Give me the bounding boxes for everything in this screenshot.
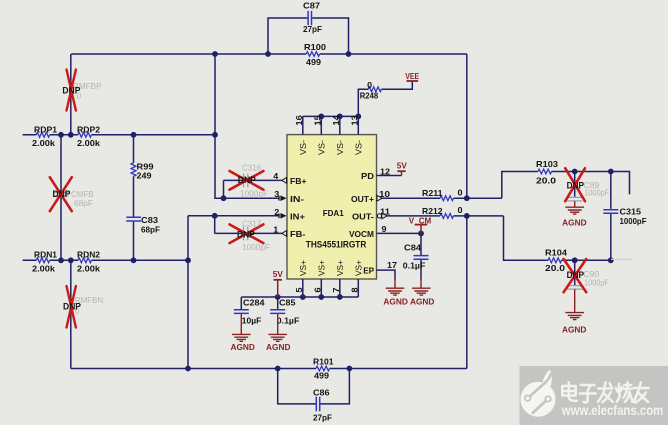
ground AGND under C89 — [574, 201, 576, 207]
svg-text:5: 5 — [295, 287, 304, 293]
capacitor C316 DNP X — [230, 171, 264, 190]
wire IN+ vertical down to bottom rail — [187, 216, 189, 369]
node RDN2-out / IN+ vertical — [185, 257, 191, 263]
wire VS- bus to R248 — [358, 82, 412, 117]
svg-text:R212: R212 — [422, 206, 443, 216]
capacitor CMFB DNP X — [50, 177, 72, 211]
node VS- bus pin14 — [337, 114, 343, 120]
capacitor C89 DNP X — [565, 168, 585, 201]
wire FB- row — [215, 232, 282, 234]
node RDP1-out / RMFBP — [68, 132, 74, 138]
node IN+ / C317 stub — [212, 213, 218, 219]
svg-text:VS-: VS- — [336, 140, 345, 155]
svg-text:RDN1: RDN1 — [34, 250, 57, 260]
resistor R212 — [440, 214, 454, 219]
node IN- / C316 stub — [221, 195, 227, 201]
node R211 out / top rail — [464, 195, 470, 201]
watermark box — [520, 366, 668, 425]
node C315 bottom — [608, 257, 614, 263]
node VS- bus pin15 — [318, 114, 324, 120]
svg-text:DNP: DNP — [53, 189, 71, 199]
capacitor C317 DNP gray plates — [244, 227, 248, 241]
power V_CM — [420, 225, 422, 234]
capacitor C85 — [277, 297, 279, 309]
svg-text:68pF: 68pF — [141, 225, 160, 235]
wire EP pin to ground — [377, 270, 396, 280]
capacitor C86 — [316, 397, 319, 411]
resistor RDN1 — [36, 258, 50, 263]
wire VS+ bus — [241, 296, 358, 298]
svg-text:10: 10 — [379, 189, 390, 199]
power 5V at VS+ bus — [277, 280, 279, 297]
wire VOCM pin row — [377, 232, 422, 234]
svg-text:6: 6 — [314, 287, 323, 293]
svg-text:AGND: AGND — [562, 325, 587, 335]
svg-text:0.1µF: 0.1µF — [403, 261, 426, 271]
svg-text:C84: C84 — [404, 243, 421, 253]
svg-text:R211: R211 — [422, 188, 443, 198]
svg-text:1000pF: 1000pF — [584, 187, 609, 197]
svg-text:499: 499 — [314, 371, 329, 381]
power VEE — [407, 80, 419, 82]
svg-text:0: 0 — [458, 205, 463, 215]
svg-text:V_CM: V_CM — [409, 216, 432, 226]
wire R103 out to C315 top and stub — [552, 172, 630, 195]
wire IN+ row — [188, 215, 280, 217]
svg-text:DNP: DNP — [237, 229, 255, 239]
resistor RMFBN DNP — [67, 286, 76, 328]
ground AGND under EP — [394, 280, 396, 288]
svg-text:16: 16 — [295, 114, 304, 125]
svg-text:C87: C87 — [303, 1, 320, 11]
wire R212 node down to R104 row — [504, 216, 549, 260]
node C87 left — [265, 51, 271, 57]
wire CMFB vertical branch — [60, 135, 62, 260]
svg-text:R100: R100 — [304, 42, 326, 52]
svg-text:C317: C317 — [242, 219, 261, 229]
capacitor C90 DNP X — [564, 259, 587, 292]
ground AGND under C84 — [420, 280, 422, 288]
wire C317 stub down — [214, 216, 216, 234]
svg-text:1: 1 — [273, 224, 278, 234]
resistor R104 — [548, 258, 562, 263]
svg-text:AGND: AGND — [266, 342, 291, 352]
svg-text:1000pF: 1000pF — [584, 278, 609, 288]
svg-text:2.00k: 2.00k — [32, 138, 55, 148]
svg-text:IN+: IN+ — [290, 211, 305, 221]
svg-text:14: 14 — [332, 114, 341, 125]
capacitor C89 DNP branch — [574, 172, 576, 197]
svg-text:PD: PD — [361, 171, 374, 181]
wire bottom feedback rail — [71, 216, 467, 369]
node RDN1-out / CMFB bottom — [58, 257, 64, 263]
node VOCM / C84 — [418, 231, 424, 237]
svg-text:VS+: VS+ — [299, 260, 308, 276]
resistor RDN2 — [78, 258, 92, 263]
wire OUT+ row to R211 — [382, 197, 502, 199]
node C87 right — [346, 51, 352, 57]
svg-text:R104: R104 — [545, 248, 567, 258]
svg-text:4: 4 — [273, 171, 278, 181]
svg-text:www.elecfans.com: www.elecfans.com — [561, 403, 663, 418]
svg-text:DNP: DNP — [63, 302, 81, 312]
resistor R101 — [316, 366, 330, 371]
svg-text:VS-: VS- — [318, 140, 327, 155]
node top-rail / RDP2-IN- vertical — [212, 51, 218, 57]
node C86 left — [275, 366, 281, 372]
wire RMFBN vertical branch — [70, 260, 72, 368]
svg-text:1000pF: 1000pF — [620, 216, 647, 226]
capacitor C316 DNP gray plates — [244, 174, 248, 188]
wire R104 out to C315 bottom — [562, 259, 611, 261]
svg-text:VOCM: VOCM — [349, 229, 374, 239]
op-amp FDA1 THS4551IRGTR body — [287, 135, 377, 279]
node C86 right — [347, 366, 353, 372]
svg-text:AGND: AGND — [410, 297, 435, 307]
svg-text:RDN2: RDN2 — [77, 250, 100, 260]
wire PD pin to 5V — [377, 175, 402, 177]
svg-text:FB+: FB+ — [290, 176, 307, 186]
svg-text:11: 11 — [380, 207, 390, 217]
pins 5 6 7 8 VS+ bottom stubs — [303, 279, 359, 297]
svg-text:AGND: AGND — [562, 217, 587, 227]
ground AGND under C284 — [240, 314, 242, 334]
resistor R248 — [368, 87, 381, 92]
wire faint stub right of C315 bottom — [611, 258, 632, 260]
svg-text:VS+: VS+ — [355, 260, 364, 276]
wire RDP input row — [23, 134, 215, 136]
node RDP2-out / R99 — [131, 132, 137, 138]
svg-text:1000pF: 1000pF — [240, 188, 268, 198]
svg-text:0: 0 — [458, 187, 463, 197]
node VS+ bus pin6 — [318, 294, 324, 300]
node R104 out / C90 — [572, 257, 578, 263]
resistor R211 — [440, 196, 454, 201]
svg-text:VEE: VEE — [405, 71, 419, 81]
node RDN2-out / C83 — [131, 257, 137, 263]
wire RMFBP vertical branch — [70, 54, 72, 135]
pins 16 15 14 13 VS- top stubs — [303, 116, 359, 134]
svg-text:FB-: FB- — [290, 229, 306, 239]
wire OUT- row to R212 — [387, 215, 503, 217]
svg-text:27pF: 27pF — [313, 413, 332, 423]
resistor R99 — [131, 163, 136, 177]
svg-text:AGND: AGND — [230, 342, 255, 352]
svg-text:8: 8 — [351, 287, 360, 293]
node VS+ bus pin5 — [300, 294, 306, 300]
svg-text:2.00k: 2.00k — [32, 264, 55, 274]
svg-text:499: 499 — [306, 57, 321, 67]
resistor RDP2 — [78, 132, 92, 137]
ground AGND under C90 — [574, 289, 576, 312]
pin 4 FB+ glyph — [282, 178, 287, 184]
pin 2 IN+ glyph — [280, 213, 286, 219]
svg-text:2.00k: 2.00k — [77, 264, 100, 274]
wire C86 loop — [278, 369, 350, 404]
wire RDN input row — [23, 259, 188, 261]
svg-text:2: 2 — [274, 207, 279, 217]
svg-text:249: 249 — [137, 171, 152, 181]
wire R211 node up to R103 row — [502, 172, 538, 199]
svg-text:5V: 5V — [273, 269, 283, 279]
svg-text:C284: C284 — [243, 298, 265, 308]
svg-text:20.0: 20.0 — [536, 175, 556, 185]
node VS- bus pin13 — [355, 114, 361, 120]
ground AGND under C85 — [277, 314, 279, 334]
svg-text:RDP1: RDP1 — [34, 124, 57, 134]
svg-text:0.1µF: 0.1µF — [277, 316, 300, 326]
watermark logo drop — [521, 382, 556, 417]
svg-text:VS+: VS+ — [318, 260, 327, 276]
node VS+ bus pin7 — [337, 294, 343, 300]
node R103 out / C89 — [572, 169, 578, 175]
pin 1 FB- glyph — [282, 231, 287, 237]
svg-text:AGND: AGND — [383, 297, 408, 307]
svg-text:68pF: 68pF — [74, 198, 93, 208]
node VS+ bus 5V/C85 — [275, 294, 281, 300]
svg-text:VS+: VS+ — [336, 260, 345, 276]
resistor RDP1 — [36, 132, 50, 137]
capacitor C284 — [240, 297, 242, 309]
pin 11 OUT- glyph — [377, 214, 381, 218]
svg-text:DNP: DNP — [62, 85, 80, 95]
watermark logo circuit cutouts — [529, 381, 547, 397]
svg-text:C85: C85 — [279, 298, 296, 308]
wire top feedback rail — [71, 53, 467, 55]
svg-text:DNP: DNP — [567, 270, 585, 280]
capacitor C315 — [610, 172, 612, 261]
wire VS- bus — [303, 115, 359, 117]
svg-text:IN-: IN- — [290, 194, 304, 204]
node R212 out / bottom rail — [464, 213, 470, 219]
svg-text:C315: C315 — [620, 206, 642, 216]
resistor R103 — [538, 169, 552, 174]
node RDP1-out / CMFB — [58, 132, 64, 138]
svg-text:2.00k: 2.00k — [77, 138, 100, 148]
svg-text:15: 15 — [313, 114, 322, 125]
node C315 top — [608, 169, 614, 175]
svg-text:7: 7 — [332, 287, 341, 293]
svg-text:17: 17 — [387, 260, 397, 270]
wire C87 loop — [268, 18, 349, 54]
resistor R100 — [306, 52, 320, 57]
wire right vertical from top rail to R211 node — [466, 54, 468, 198]
svg-text:THS4551IRGTR: THS4551IRGTR — [306, 239, 367, 249]
svg-text:3: 3 — [274, 189, 279, 199]
node RDP2-out / feedback — [212, 132, 218, 138]
pin 3 IN- glyph — [280, 195, 286, 201]
svg-text:20.0: 20.0 — [545, 263, 565, 273]
svg-text:1000pF: 1000pF — [242, 242, 270, 252]
svg-text:DNP: DNP — [567, 180, 585, 190]
svg-text:VS-: VS- — [299, 140, 308, 155]
svg-text:RDP2: RDP2 — [77, 124, 100, 134]
watermark chinese glyphs — [562, 382, 649, 402]
svg-text:0: 0 — [367, 80, 372, 90]
capacitor C84 — [420, 233, 422, 279]
wire R99/C83 branch — [133, 135, 135, 260]
svg-text:C86: C86 — [313, 388, 330, 398]
svg-text:VS-: VS- — [355, 140, 364, 155]
capacitor C83 — [126, 217, 141, 221]
svg-text:10µF: 10µF — [242, 316, 261, 326]
svg-text:C316: C316 — [242, 162, 261, 172]
node bottom rail / IN+ vertical — [185, 366, 191, 372]
svg-text:27pF: 27pF — [303, 24, 322, 34]
capacitor C317 DNP X — [230, 224, 264, 243]
capacitor C90 DNP branch — [574, 260, 576, 285]
wire FB+ row — [224, 179, 282, 181]
svg-text:R101: R101 — [313, 357, 334, 367]
wire vertical top-rail to IN- row — [215, 54, 280, 198]
svg-text:OUT-: OUT- — [352, 211, 374, 221]
svg-text:R248: R248 — [360, 91, 379, 101]
svg-text:FDA1: FDA1 — [323, 208, 344, 218]
capacitor C87 — [308, 11, 311, 25]
svg-text:DNP: DNP — [238, 175, 256, 185]
svg-text:R103: R103 — [536, 159, 558, 169]
power 5V at PD — [401, 171, 403, 175]
resistor RMFBP DNP — [67, 70, 76, 111]
node RDN1-out / RMFBN — [68, 257, 74, 263]
capacitor CMFB DNP gray plates — [54, 192, 69, 196]
wire C316 stub up — [223, 180, 225, 198]
svg-text:OUT+: OUT+ — [351, 194, 374, 204]
svg-text:5V: 5V — [397, 161, 407, 171]
pin 10 OUT+ glyph — [377, 195, 382, 201]
svg-text:EP: EP — [363, 265, 374, 275]
